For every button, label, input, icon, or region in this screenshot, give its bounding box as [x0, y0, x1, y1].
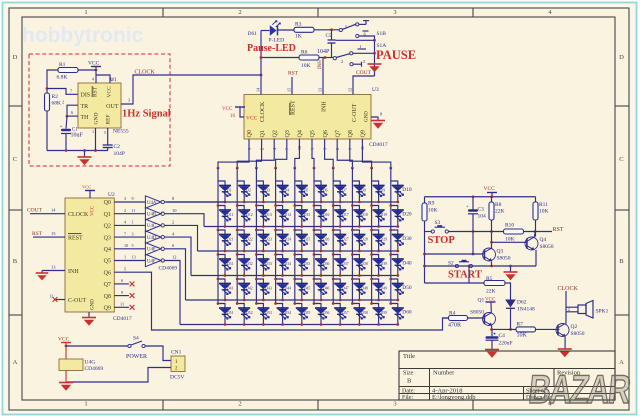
svg-text:1Hz Signal: 1Hz Signal	[122, 109, 171, 120]
ground at U2 INH	[36, 271, 49, 281]
wire R10 to RST	[524, 231, 553, 233]
svg-text:D39: D39	[381, 262, 388, 266]
svg-text:5: 5	[124, 266, 126, 271]
PAUSE caption	[376, 48, 416, 62]
wire row bus 2	[204, 226, 398, 228]
svg-text:GND: GND	[91, 299, 96, 310]
LED D41	[217, 278, 234, 302]
svg-text:B: B	[13, 258, 18, 265]
svg-text:RST: RST	[553, 227, 564, 233]
svg-text:Q3: Q3	[497, 249, 504, 255]
LED D6	[314, 181, 328, 203]
wire GND pin 1	[92, 128, 96, 151]
svg-text:COUT: COUT	[356, 70, 372, 76]
LED D37	[332, 253, 349, 277]
wire row bus 4	[191, 275, 398, 277]
svg-text:D22: D22	[246, 238, 253, 242]
1Hz Signal caption	[122, 109, 171, 120]
capacitor C2	[103, 144, 125, 157]
svg-text:Q1: Q1	[260, 130, 266, 137]
node A junction	[46, 87, 49, 90]
LED D51	[217, 302, 234, 326]
1Hz signal dashed boundary box	[29, 54, 170, 166]
svg-text:+: +	[60, 124, 63, 130]
wire R2 bottom to ground rail	[46, 111, 48, 151]
svg-text:D60: D60	[402, 310, 412, 316]
wire U4D output to row bus 4	[164, 237, 191, 275]
LED D28	[351, 229, 368, 253]
svg-text:10K: 10K	[505, 237, 515, 243]
wire U3 Q7 to matrix column 8	[337, 139, 354, 169]
svg-text:REST: REST	[291, 100, 297, 115]
svg-text:D52: D52	[246, 311, 253, 315]
inverter U4E	[145, 243, 164, 255]
svg-text:2: 2	[238, 401, 241, 408]
svg-text:D53: D53	[265, 311, 272, 315]
inverter U4F output pin number	[172, 255, 177, 260]
STOP caption	[428, 235, 456, 246]
speaker SPK1	[578, 301, 593, 319]
LED D2	[237, 181, 251, 203]
S1A designator	[377, 43, 387, 49]
svg-text:R3: R3	[295, 22, 302, 28]
svg-text:D6: D6	[323, 189, 328, 193]
wire CLOCK to speaker	[566, 291, 578, 312]
svg-text:TR: TR	[81, 104, 89, 110]
resistor R4	[448, 311, 468, 329]
svg-text:2: 2	[568, 307, 570, 312]
svg-text:D41: D41	[227, 287, 234, 291]
svg-text:CLOCK: CLOCK	[558, 286, 579, 292]
svg-text:TH: TH	[81, 115, 90, 121]
LED D33	[255, 253, 272, 277]
LED D57	[332, 302, 349, 326]
svg-text:STOP: STOP	[428, 235, 456, 246]
LED D39	[370, 253, 387, 277]
svg-text:D56: D56	[323, 311, 330, 315]
LED D46	[313, 278, 330, 302]
wire OUT pin 3 to CLOCK net	[121, 75, 261, 104]
inverter U4B	[145, 208, 164, 220]
svg-text:D54: D54	[285, 311, 292, 315]
svg-text:D13: D13	[265, 213, 272, 217]
svg-text:D10: D10	[402, 187, 412, 193]
LED D58	[351, 302, 368, 326]
svg-text:11: 11	[132, 208, 136, 213]
wire left vertical S3-S2	[423, 232, 426, 284]
svg-text:Q2: Q2	[571, 324, 578, 330]
svg-text:220uF: 220uF	[499, 341, 513, 347]
wire U3 Q0 to matrix column 1	[217, 139, 249, 169]
wire C5 to S1B vertical	[336, 39, 375, 41]
svg-text:10K: 10K	[428, 208, 438, 214]
wire R11 to Q4 collector	[534, 220, 537, 237]
wire matrix column line 3	[255, 168, 257, 304]
wire Q1 emitter to node	[491, 325, 493, 329]
svg-text:D43: D43	[265, 287, 272, 291]
LED D53	[255, 302, 272, 326]
svg-text:3: 3	[128, 98, 130, 103]
title block grid	[399, 351, 615, 400]
wire R1 left to node A	[47, 70, 58, 93]
resistor R11	[533, 197, 549, 220]
wire VCC to S4	[66, 345, 128, 347]
svg-text:R9: R9	[428, 201, 435, 207]
svg-text:Q4: Q4	[104, 247, 111, 253]
node RST at U2 REST	[32, 231, 65, 237]
ground at U3 pin 8	[371, 121, 385, 129]
svg-text:Q0: Q0	[247, 130, 253, 137]
LED D9	[372, 181, 386, 203]
svg-text:R5: R5	[486, 276, 493, 282]
svg-text:R8: R8	[495, 202, 502, 208]
svg-text:Title: Title	[403, 353, 415, 360]
LED D15	[293, 204, 310, 228]
wire node B to C1	[66, 116, 67, 128]
svg-text:COUT: COUT	[27, 208, 43, 214]
U2 Q7 no-connect	[114, 278, 134, 286]
svg-text:3: 3	[124, 196, 126, 201]
svg-text:10K: 10K	[539, 209, 549, 215]
svg-text:Date:: Date:	[402, 388, 415, 394]
LED D40	[389, 253, 411, 277]
svg-text:S3: S3	[435, 220, 441, 226]
BAZAR watermark	[527, 368, 633, 412]
svg-text:R2: R2	[52, 94, 59, 100]
svg-text:START: START	[448, 270, 482, 281]
power VCC bottom left	[58, 337, 71, 347]
LED D16	[313, 204, 330, 228]
wire C1 to ground rail	[65, 134, 67, 151]
op-amp U4G body	[59, 359, 83, 371]
svg-text:POWER: POWER	[126, 354, 147, 360]
op-amp U2 CD4017 body	[65, 198, 114, 312]
inverter U4A output pin number	[172, 196, 175, 201]
junction VCC bottom	[65, 345, 68, 348]
svg-text:D32: D32	[246, 262, 253, 266]
title block texts	[402, 353, 581, 401]
wire VCC branch to pin 8	[96, 75, 114, 83]
LED D35	[293, 253, 310, 277]
inverter U4E output pin number	[172, 243, 175, 248]
svg-text:D11: D11	[227, 213, 233, 217]
LED D54	[274, 302, 291, 326]
wire R6 left to pin14 line	[260, 56, 299, 59]
svg-text:U4E: U4E	[147, 248, 156, 253]
wire R1 right to VCC stub	[78, 69, 96, 71]
svg-text:6.8K: 6.8K	[57, 75, 68, 81]
svg-text:NE555: NE555	[113, 129, 129, 135]
U2 Q9 no-connect	[114, 302, 134, 310]
svg-text:S8050: S8050	[470, 310, 484, 316]
svg-text:S8050: S8050	[540, 244, 554, 250]
svg-text:D4: D4	[285, 189, 290, 193]
wire C3 down to Q3 base line	[472, 214, 475, 256]
wire matrix column line 6	[313, 168, 315, 304]
inverter U4B output pin number	[172, 208, 177, 213]
LED D17	[332, 204, 349, 228]
svg-text:Q5: Q5	[310, 130, 316, 137]
resistor R3	[294, 22, 314, 40]
svg-text:D7: D7	[342, 189, 347, 193]
svg-text:CD4017: CD4017	[369, 142, 388, 148]
switch S1A throw 1	[350, 44, 375, 55]
svg-text:U2: U2	[108, 192, 115, 198]
svg-text:D2: D2	[246, 189, 251, 193]
LED D52	[236, 302, 253, 326]
wire 555 ground rail	[47, 149, 108, 152]
svg-text:R4: R4	[449, 311, 456, 317]
svg-text:D45: D45	[304, 287, 311, 291]
svg-text:RST: RST	[93, 86, 99, 97]
svg-text:104P: 104P	[114, 151, 125, 157]
svg-text:104: 104	[478, 214, 487, 220]
svg-text:VCC: VCC	[88, 61, 100, 67]
P-LED label	[269, 38, 285, 44]
svg-text:D49: D49	[381, 287, 388, 291]
svg-text:D9: D9	[381, 189, 386, 193]
wire VCC to U4G	[65, 346, 67, 359]
svg-text:D36: D36	[323, 262, 330, 266]
svg-text:Q2: Q2	[272, 130, 278, 137]
capacitor C1	[60, 124, 84, 139]
wire R9 to S3	[424, 221, 426, 232]
U1 part number NE555	[113, 129, 129, 135]
svg-text:D27: D27	[342, 238, 349, 242]
node RST at U3	[288, 71, 299, 77]
svg-text:13: 13	[51, 264, 56, 269]
wire Q4 collector	[534, 232, 535, 238]
resistor R9	[422, 197, 438, 221]
hobbytronic watermark	[22, 24, 144, 47]
svg-text:E:\longyong.ddb: E:\longyong.ddb	[432, 394, 476, 401]
U2 C-OUT pin 12 no-connect	[49, 294, 65, 302]
svg-text:S2: S2	[448, 261, 454, 267]
svg-text:U4C: U4C	[147, 224, 156, 229]
op-amp U3 CD4017 body	[244, 95, 371, 140]
U3 part number CD4017	[369, 142, 388, 148]
resistor R8	[489, 197, 505, 220]
LED D47	[332, 278, 349, 302]
LED D34	[274, 253, 291, 277]
inverter U4C output pin number	[172, 220, 174, 225]
svg-text:S8050: S8050	[497, 256, 511, 262]
svg-text:D42: D42	[246, 287, 253, 291]
svg-text:D40: D40	[402, 261, 412, 267]
svg-text:D25: D25	[304, 238, 311, 242]
LED D24	[274, 229, 291, 253]
LED D32	[236, 253, 253, 277]
LED D8	[352, 181, 366, 203]
LED D21	[217, 229, 234, 253]
svg-text:D12: D12	[246, 213, 253, 217]
svg-text:U4A: U4A	[147, 201, 157, 206]
wire row bus 5	[186, 299, 398, 301]
switch S1A pole 2	[333, 54, 350, 64]
junction VCC-R1	[95, 69, 98, 72]
svg-text:Q8: Q8	[104, 294, 111, 300]
svg-text:B: B	[619, 258, 624, 265]
svg-text:2: 2	[172, 220, 174, 225]
LED D10	[391, 181, 412, 203]
wire U3 Q5 to matrix column 6	[312, 139, 315, 169]
svg-text:S8050: S8050	[571, 331, 585, 337]
POWER label	[126, 354, 147, 360]
svg-text:Q3: Q3	[104, 235, 111, 241]
wire R3 to S1B	[314, 28, 339, 31]
svg-text:REF: REF	[106, 114, 112, 124]
svg-text:CD4017: CD4017	[113, 316, 132, 322]
svg-text:15: 15	[51, 231, 56, 236]
LED D18	[351, 204, 368, 228]
U3 GND pin 8	[371, 112, 383, 121]
resistor R6	[299, 50, 319, 70]
wire C4 to ground	[491, 340, 493, 349]
LED D50	[389, 278, 411, 302]
svg-text:Q7: Q7	[335, 130, 341, 137]
wire CN1 pin 2 to ground rail	[66, 368, 171, 383]
switch S1B pole 5	[339, 21, 369, 32]
wire U2 Q2 to inverter U4C	[114, 220, 145, 226]
svg-text:1: 1	[132, 220, 134, 225]
svg-text:Pause-LED: Pause-LED	[247, 43, 296, 54]
resistor R1	[57, 62, 79, 81]
wire U3 Q2 to matrix column 3	[255, 139, 274, 169]
svg-text:16: 16	[230, 114, 236, 119]
svg-text:CLOCK: CLOCK	[68, 212, 89, 218]
switch S1B pole 6	[356, 31, 375, 76]
wire D62 to emitter line	[509, 308, 512, 331]
capacitor C5	[317, 30, 336, 55]
junction S1A common	[373, 52, 376, 55]
wire node A to DIS pin 7	[47, 89, 78, 95]
wire row bus 6	[180, 324, 398, 326]
wire U3 Q3 to matrix column 4	[274, 139, 287, 169]
CD4069 label	[159, 266, 178, 272]
power VCC at Q1	[485, 298, 496, 313]
svg-text:1: 1	[92, 129, 94, 134]
svg-text:470R: 470R	[448, 323, 461, 329]
svg-text:D38: D38	[361, 262, 368, 266]
svg-text:1: 1	[84, 401, 87, 408]
svg-text:8: 8	[112, 77, 114, 82]
svg-text:1N4148: 1N4148	[517, 307, 535, 313]
wire D61 to R3	[278, 29, 295, 31]
U3 pin 13 INH wire	[318, 58, 324, 95]
svg-text:68K: 68K	[52, 101, 62, 107]
svg-text:BAZAR: BAZAR	[527, 368, 633, 412]
S1B designator	[377, 31, 387, 37]
svg-text:6: 6	[121, 278, 123, 283]
resistor R10	[504, 223, 524, 243]
U1 designator	[110, 77, 117, 83]
U4G part number CD4069	[85, 366, 104, 372]
svg-text:RST: RST	[32, 231, 43, 237]
wire left vertical to R5	[425, 282, 485, 284]
svg-text:D35: D35	[304, 262, 311, 266]
wire matrix column line 1	[217, 168, 219, 304]
svg-text:Q3: Q3	[285, 130, 291, 137]
svg-text:D30: D30	[402, 236, 412, 242]
svg-text:A: A	[13, 359, 18, 366]
svg-text:VCC: VCC	[107, 86, 113, 98]
resistor R5	[484, 276, 505, 295]
svg-text:7: 7	[70, 89, 72, 94]
transistor Q2	[556, 324, 585, 337]
svg-text:C-OUT: C-OUT	[352, 103, 358, 122]
wire matrix column line 8	[351, 168, 353, 304]
power VCC for 555	[88, 61, 101, 84]
LED D13	[255, 204, 272, 228]
wire U4A output to row bus 1	[164, 201, 225, 203]
LED D44	[274, 278, 291, 302]
svg-text:GND: GND	[94, 113, 100, 125]
U3 designator	[372, 87, 379, 93]
svg-text:D37: D37	[342, 262, 349, 266]
wire U3 Q8 to matrix column 9	[350, 139, 373, 169]
svg-text:6: 6	[71, 110, 73, 115]
svg-text:D15: D15	[304, 213, 311, 217]
svg-text:DC5V: DC5V	[170, 375, 184, 381]
node CLOCK right	[558, 286, 579, 292]
svg-text:CLOCK: CLOCK	[135, 70, 156, 76]
svg-text:15: 15	[287, 88, 292, 92]
svg-text:File:: File:	[402, 395, 413, 401]
LED D4	[276, 181, 290, 203]
node B junction	[66, 115, 69, 118]
svg-text:10: 10	[124, 243, 128, 248]
svg-text:D57: D57	[342, 311, 349, 315]
wire matrix column line 4	[275, 168, 277, 304]
switch S4	[128, 336, 145, 348]
wire U3 Q1 to matrix column 2	[236, 139, 262, 169]
svg-text:D18: D18	[361, 213, 368, 217]
inverter U4F	[145, 254, 164, 266]
svg-text:D50: D50	[402, 285, 412, 291]
svg-text:CD4069: CD4069	[159, 266, 178, 272]
svg-text:C4: C4	[499, 333, 506, 339]
U2 Q8 no-connect	[114, 290, 134, 298]
svg-text:D62: D62	[517, 300, 527, 306]
capacitor C4	[486, 329, 513, 346]
svg-text:Q7: Q7	[104, 282, 111, 288]
CN1 designator	[171, 350, 182, 356]
svg-text:2: 2	[62, 100, 64, 105]
ground for 555	[78, 151, 92, 166]
wire REF pin 5 to C2	[104, 128, 108, 145]
U3 VCC pin 16	[222, 107, 245, 119]
svg-text:D17: D17	[342, 213, 349, 217]
svg-text:CD4069: CD4069	[85, 366, 104, 372]
wire U3 Q6 to matrix column 7	[325, 139, 335, 169]
START caption	[448, 270, 482, 281]
wire matrix column line 7	[332, 168, 334, 304]
svg-text:OUT: OUT	[106, 104, 119, 110]
U2 INH wire to ground	[42, 264, 65, 270]
svg-text:INH: INH	[68, 269, 79, 275]
resistor R7	[516, 322, 536, 339]
svg-text:INH: INH	[318, 60, 323, 69]
svg-text:D1: D1	[227, 189, 232, 193]
LED D7	[333, 181, 347, 203]
LED D38	[351, 253, 368, 277]
svg-text:S4: S4	[133, 336, 139, 342]
connector CN1 body	[171, 356, 185, 372]
svg-text:Q2: Q2	[104, 224, 111, 230]
svg-text:Q9: Q9	[361, 130, 367, 137]
node INH label	[318, 60, 323, 69]
svg-text:VCC: VCC	[82, 185, 91, 190]
